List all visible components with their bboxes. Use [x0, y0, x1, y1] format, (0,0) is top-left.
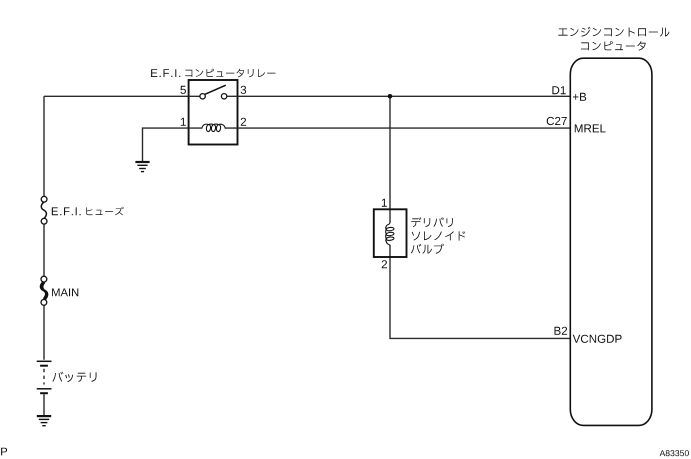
ground symbol G2 (battery negative ground)	[37, 416, 51, 426]
relay label text: E.F.I.コンピュータリレー	[151, 69, 275, 78]
ECU net label VCNGDP	[573, 335, 622, 343]
ECU label line 2 text コンピュータ	[581, 41, 646, 50]
solenoid valve SV1 box (delivery solenoid valve)	[374, 209, 407, 257]
fuse F1 label text: E.F.I.ヒューズ	[52, 207, 124, 216]
solenoid valve SV1 coil loop ellipses	[386, 227, 394, 241]
ECU pin name C27	[547, 117, 567, 125]
fuse F1 bottom terminal circle	[41, 218, 47, 224]
solenoid label line 3 text バルブ	[411, 244, 444, 254]
battery BT1 long plate (cell 2)	[37, 388, 52, 390]
fusible link MAIN top terminal circle	[41, 276, 47, 282]
fuse F1 top terminal circle	[41, 196, 47, 202]
battery BT1 short plate (cell 2)	[40, 392, 48, 394]
ECU pin name D1	[552, 86, 565, 94]
relay contact terminal circle at pin 5 side	[200, 94, 205, 99]
solenoid pin number 2	[382, 260, 387, 268]
battery BT1 short plate (cell 1)	[40, 365, 48, 367]
ECU pin name B2	[555, 327, 568, 335]
page marker P	[1, 448, 7, 456]
junction dot: node A on +B rail feeding solenoid	[388, 94, 393, 99]
ECU U2: engine control computer outline	[570, 58, 652, 425]
wire: relay coil pin 1 to ground G1	[143, 128, 189, 161]
relay contact switch arm (normally open)	[205, 85, 226, 94]
relay coil L1 hump arcs	[202, 124, 226, 128]
battery BT1 inter-cell dashed link	[43, 369, 45, 385]
fusible link label text MAIN	[52, 289, 78, 297]
solenoid valve SV1 coil hump arcs	[386, 222, 390, 246]
relay pin number 1	[181, 118, 186, 126]
solenoid label line 2 text ソレノイド	[412, 231, 466, 240]
relay coil L1 loop ellipses	[206, 124, 221, 131]
wire: solenoid feed vertical drop from node A and run to ECU pin B2	[390, 96, 570, 338]
fusible link MAIN bottom terminal circle	[41, 300, 47, 306]
ECU net label MREL	[575, 124, 606, 132]
solenoid pin number 1	[382, 199, 387, 207]
figure number A83350	[660, 450, 689, 456]
wire: +B net horizontal rail from battery rail to ECU pin D1	[44, 95, 570, 97]
ECU label line 1 text エンジンコントロール	[558, 27, 669, 37]
relay U1: E.F.I. computer relay box outline	[189, 80, 238, 145]
solenoid label line 1 text デリバリ	[411, 217, 453, 227]
battery label text バッテリ	[52, 372, 96, 383]
ground symbol G1 (relay coil ground)	[135, 162, 149, 172]
relay internal wire stubs (pins 5,3 contact row and pins 1,2 coil row)	[189, 96, 238, 128]
ECU net label +B	[573, 93, 586, 101]
fusible link MAIN element (bold double S-curve)	[41, 282, 46, 299]
relay pin number 2	[241, 118, 246, 126]
relay contact terminal circle at pin 3 side	[221, 94, 226, 99]
wire: left vertical battery rail segments	[43, 96, 45, 415]
relay pin number 3	[241, 86, 247, 94]
fuse F1 element: E.F.I. fuse S-curve	[41, 202, 46, 219]
battery BT1 long plate (cell 1)	[37, 360, 52, 362]
wire: MREL net from relay pin 2 to ECU pin C27	[238, 127, 570, 129]
relay pin number 5	[180, 86, 186, 94]
